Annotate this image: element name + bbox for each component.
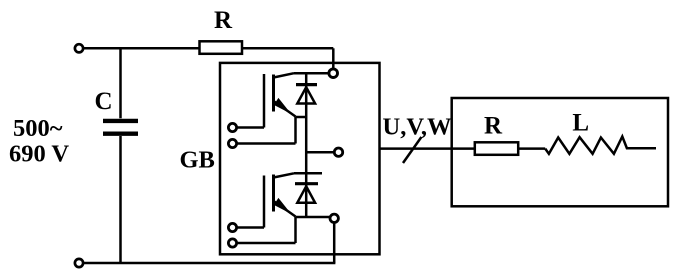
wire Q2 gate lead xyxy=(238,226,265,229)
load box xyxy=(452,98,668,206)
wire midpoint vertical line xyxy=(305,73,308,217)
wire capacitor bottom lead xyxy=(119,136,122,263)
wire phase tap xyxy=(306,151,333,154)
diode D2 triangle xyxy=(297,186,315,203)
phase terminal circle xyxy=(334,148,342,156)
inductor L zigzag xyxy=(545,137,656,154)
wire Q1 aux emitter lead xyxy=(238,142,296,145)
wire Q2 aux emitter lead xyxy=(238,242,296,245)
wire Q2 emitter horizontal to terminal xyxy=(296,216,330,219)
svg-text:GB: GB xyxy=(180,146,215,173)
terminal circle DC- input xyxy=(75,259,83,267)
transistor Q2 emitter diagonal with arrow xyxy=(274,201,296,217)
svg-text:690 V: 690 V xyxy=(9,141,69,168)
wire emitter riser to bottom rail xyxy=(333,223,336,263)
capacitor C bottom plate xyxy=(103,131,138,135)
slash three-phase marker xyxy=(403,137,421,163)
svg-text:R: R xyxy=(214,7,233,34)
transistor Q1 aux emitter terminal circle xyxy=(228,139,236,147)
emitter terminal circle bottom xyxy=(330,214,338,222)
terminal circle DC+ input xyxy=(75,44,83,52)
wire Q2 aux emitter vertical xyxy=(294,217,297,243)
svg-text:L: L xyxy=(572,110,589,137)
GB converter box xyxy=(220,63,380,254)
collector terminal circle top xyxy=(329,69,338,78)
transistor Q2 collector diagonal xyxy=(274,173,295,177)
transistor Q2 gate bar xyxy=(263,176,266,228)
resistor R2 box xyxy=(475,142,518,155)
svg-text:C: C xyxy=(94,88,112,115)
wire Q1 collector to terminal xyxy=(294,72,328,75)
wire three-phase output xyxy=(380,147,475,150)
diode D2 cathode bar xyxy=(295,182,318,185)
transistor Q1 collector diagonal xyxy=(274,73,295,77)
transistor Q2 body bar xyxy=(272,175,275,212)
wire drop to GB collector terminal xyxy=(332,48,335,69)
wire Q1 emitter junction horizontal xyxy=(296,116,307,119)
diode D1 triangle xyxy=(297,87,315,103)
transistor Q1 body bar xyxy=(272,75,275,112)
transistor Q1 emitter diagonal with arrow xyxy=(274,101,296,117)
svg-text:U,V,W: U,V,W xyxy=(383,114,452,141)
diode D1 cathode bar xyxy=(296,83,317,86)
capacitor C top plate xyxy=(103,119,138,123)
wire Q2 collector stub xyxy=(294,172,322,175)
transistor Q2 aux emitter terminal circle xyxy=(228,239,236,247)
transistor Q2 gate terminal circle xyxy=(228,223,236,231)
svg-text:500~: 500~ xyxy=(13,115,63,142)
wire bottom rail xyxy=(84,262,336,265)
wire capacitor top lead xyxy=(119,48,122,118)
svg-text:R: R xyxy=(484,113,503,140)
transistor Q1 gate bar xyxy=(263,74,266,128)
resistor R1 box xyxy=(200,41,243,54)
wire between R and L xyxy=(518,147,545,150)
wire Q1 gate lead xyxy=(238,126,265,129)
wire Q1 aux emitter vertical xyxy=(294,117,297,144)
transistor Q1 gate terminal circle xyxy=(228,123,236,131)
wire top rail xyxy=(84,47,333,50)
